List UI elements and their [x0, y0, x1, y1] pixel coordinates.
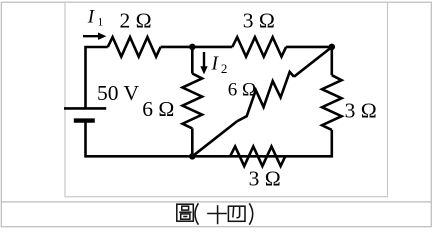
svg-text:3 Ω: 3 Ω	[249, 167, 281, 191]
svg-text:2 Ω: 2 Ω	[120, 9, 152, 33]
svg-text:6 Ω: 6 Ω	[228, 79, 256, 100]
svg-text:I: I	[211, 54, 220, 75]
svg-text:3 Ω: 3 Ω	[243, 9, 275, 33]
svg-text:I: I	[87, 7, 96, 28]
svg-text:6 Ω: 6 Ω	[142, 97, 174, 121]
svg-text:2: 2	[221, 61, 228, 76]
svg-text:3 Ω: 3 Ω	[345, 98, 377, 122]
svg-text:50 V: 50 V	[97, 81, 139, 105]
svg-text:1: 1	[98, 16, 104, 28]
